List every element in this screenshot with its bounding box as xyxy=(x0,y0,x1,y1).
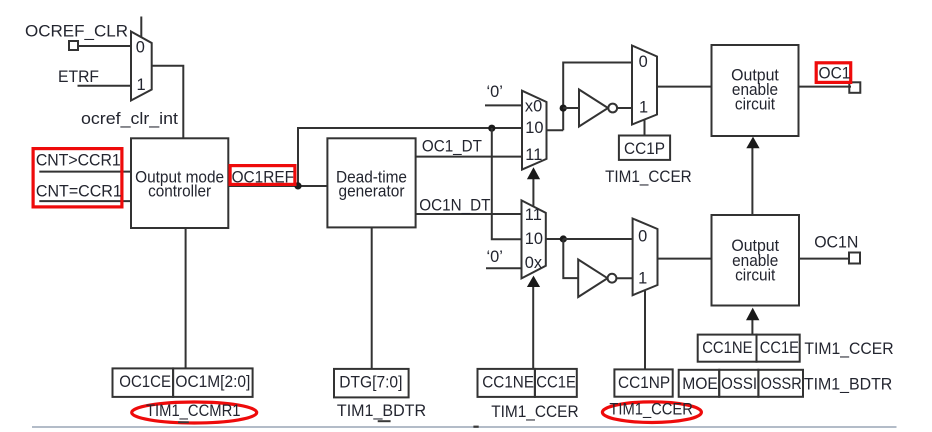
svg-text:1: 1 xyxy=(639,98,648,116)
wire CNT=CCR1 input xyxy=(39,200,131,202)
register OC1M[2:0] xyxy=(173,368,253,397)
block Output mode controller xyxy=(131,138,228,228)
svg-text:CC1E: CC1E xyxy=(536,374,576,392)
svg-text:TIM1_CCER: TIM1_CCER xyxy=(609,401,693,419)
wire OC1N_DT xyxy=(416,213,522,215)
wire into inverter U3 xyxy=(563,107,579,109)
wire node drop to inverter U6 xyxy=(563,239,578,278)
svg-text:circuit: circuit xyxy=(735,266,776,284)
highlight red ellipse TIM1_CCMR1 xyxy=(132,402,257,423)
wire selector lower mux from CC1NE/CC1E xyxy=(532,287,534,369)
svg-text:OC1N: OC1N xyxy=(814,233,858,251)
mux U1 ocref_clr selector xyxy=(131,32,152,101)
highlight red box OC1REF xyxy=(230,166,295,185)
arrowhead into lower mux U5 xyxy=(527,276,540,287)
register DTG[7:0] xyxy=(334,369,409,398)
register CC1NE (right column) xyxy=(698,335,757,362)
register MOE xyxy=(679,370,720,397)
svg-text:0: 0 xyxy=(639,53,648,71)
svg-text:controller: controller xyxy=(148,182,211,200)
highlight red box CNT compare inputs xyxy=(33,149,122,207)
mux U5 lower 3-input xyxy=(522,200,546,278)
svg-text:DTG[7:0]: DTG[7:0] xyxy=(339,374,402,392)
wire node riser to polarity mux 0-input xyxy=(563,63,632,131)
node inverter input junction xyxy=(560,105,567,112)
block Dead-time generator xyxy=(327,138,415,227)
svg-text:0: 0 xyxy=(638,228,647,246)
node lower inverter junction xyxy=(560,235,567,242)
svg-text:0x: 0x xyxy=(525,254,543,272)
inverter U3 xyxy=(579,90,608,127)
highlight red ellipse TIM1_CCER xyxy=(602,402,701,423)
svg-text:circuit: circuit xyxy=(735,96,776,114)
svg-text:OC1: OC1 xyxy=(819,65,851,83)
svg-text:CC1E: CC1E xyxy=(760,339,799,357)
svg-text:generator: generator xyxy=(339,182,406,200)
register OC1CE xyxy=(113,368,174,397)
wire node to lower polarity mux 0-input xyxy=(563,238,632,240)
wire into top of ocref mux xyxy=(140,17,142,39)
wire enable selector from CC1NE/CC1E register xyxy=(751,320,753,335)
svg-text:CNT=CCR1: CNT=CCR1 xyxy=(36,182,122,200)
svg-text:ETRF: ETRF xyxy=(58,68,99,86)
mux U4 CC1P polarity selector xyxy=(632,46,657,125)
pin OC1 xyxy=(849,82,860,93)
wire inverter U6 output to lower polarity mux 1-input xyxy=(616,277,632,279)
block Output enable circuit (lower) xyxy=(712,215,800,306)
svg-text:CC1NE: CC1NE xyxy=(702,339,752,357)
wire '0' into upper mux x0 xyxy=(485,104,522,106)
svg-text:‘0’: ‘0’ xyxy=(487,248,503,266)
svg-text:11: 11 xyxy=(525,206,542,224)
svg-text:‘0’: ‘0’ xyxy=(487,83,503,101)
svg-text:TIM1_CCER: TIM1_CCER xyxy=(804,340,893,358)
pin OCREF_CLR xyxy=(69,41,78,50)
pin OC1N xyxy=(849,253,860,264)
wire DTG selector to DTG[7:0] register xyxy=(371,227,373,369)
svg-text:TIM1_BDTR: TIM1_BDTR xyxy=(337,402,426,420)
arrowhead into upper mux U2 xyxy=(527,167,540,179)
block Output enable circuit (upper) xyxy=(712,45,799,136)
svg-text:MOE: MOE xyxy=(682,375,718,393)
svg-text:CC1NP: CC1NP xyxy=(618,374,670,392)
node OC1REF junction xyxy=(294,182,301,189)
wire enable selector between boxes xyxy=(751,148,753,216)
svg-text:OCREF_CLR: OCREF_CLR xyxy=(25,22,128,40)
svg-text:10: 10 xyxy=(525,119,543,137)
svg-text:OC1M[2:0]: OC1M[2:0] xyxy=(175,373,250,391)
wire CNT>CCR1 input xyxy=(39,171,131,173)
svg-text:OC1REF: OC1REF xyxy=(232,168,294,186)
wire upper mux output to inverter node xyxy=(547,129,564,131)
wire OC1REF output to dead-time generator xyxy=(228,185,327,187)
svg-text:OC1_DT: OC1_DT xyxy=(422,138,482,156)
svg-text:TIM1_BDTR: TIM1_BDTR xyxy=(804,375,893,393)
register CC1E (bottom) xyxy=(535,369,577,397)
svg-text:CC1NE: CC1NE xyxy=(482,374,534,392)
register OSSR xyxy=(758,370,803,397)
svg-text:TIM1_CCER: TIM1_CCER xyxy=(605,168,692,186)
wire CC1P selector xyxy=(644,120,646,136)
svg-text:CNT>CCR1: CNT>CCR1 xyxy=(36,152,121,170)
arrowhead into upper output enable xyxy=(746,137,759,149)
wire OC1_DT xyxy=(416,156,522,158)
wire OC1N output xyxy=(799,258,849,260)
svg-text:11: 11 xyxy=(525,146,542,164)
svg-text:OSSI: OSSI xyxy=(721,375,757,393)
svg-text:TIM1_CCMR1: TIM1_CCMR1 xyxy=(146,402,241,420)
node OC1REF branch junction xyxy=(488,125,495,132)
wire OCREF_CLR to mux input 0 xyxy=(78,45,131,47)
svg-text:1: 1 xyxy=(137,76,146,94)
svg-text:10: 10 xyxy=(525,230,543,248)
wire OC1REF riser to mux row xyxy=(298,128,522,186)
wire CC1NP selector xyxy=(644,291,646,370)
svg-text:x0: x0 xyxy=(525,97,542,115)
svg-text:0: 0 xyxy=(136,39,145,57)
svg-text:ocref_clr_int: ocref_clr_int xyxy=(81,110,178,128)
glyph fragment 2 xyxy=(378,420,391,422)
mux U2 upper 3-input xyxy=(522,91,547,170)
register OSSI xyxy=(719,370,758,397)
svg-text:CC1P: CC1P xyxy=(624,140,665,158)
wire ETRF to mux input 1 xyxy=(78,85,132,87)
wire controller to TIM1_CCMR1 registers xyxy=(185,228,187,368)
svg-text:OSSR: OSSR xyxy=(761,375,802,393)
svg-text:OC1CE: OC1CE xyxy=(119,373,171,391)
glyph fragment 3 xyxy=(473,426,478,428)
wire OC1REF down-branch to lower mux input 10 xyxy=(492,128,522,239)
register CC1NE (bottom) xyxy=(478,369,535,397)
wire OC1 output xyxy=(799,86,852,88)
inverter U6 xyxy=(578,260,607,298)
wire '0' into lower mux 0x xyxy=(486,267,522,269)
svg-text:TIM1_CCER: TIM1_CCER xyxy=(491,403,579,421)
arrowhead into lower output enable xyxy=(746,308,759,321)
table rule line at bottom xyxy=(32,426,897,428)
wire lower mux output to node xyxy=(546,238,564,240)
wire lower polarity mux output to output enable xyxy=(658,258,712,260)
wire inverter U3 output to polarity mux 1-input xyxy=(617,107,632,109)
svg-text:1: 1 xyxy=(638,270,647,288)
wire selector upper mux from lower mux top xyxy=(532,179,534,207)
wire ocref_clr_int mux output xyxy=(152,66,184,139)
register CC1E (right column) xyxy=(757,335,800,362)
mux U7 CC1NP polarity selector xyxy=(633,219,658,296)
register CC1P xyxy=(619,136,670,160)
register CC1NP xyxy=(614,369,672,396)
svg-text:OC1N_DT: OC1N_DT xyxy=(419,197,490,215)
glyph fragment 1 xyxy=(178,421,189,423)
highlight red box OC1 xyxy=(816,63,851,83)
wire polarity mux output to output enable xyxy=(657,86,712,88)
